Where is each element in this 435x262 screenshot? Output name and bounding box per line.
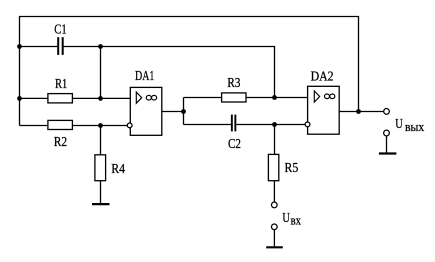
input ground terminal: [271, 224, 277, 230]
wire top feedback from node A to DA2 output node: [20, 17, 359, 126]
svg-text:R5: R5: [285, 161, 299, 176]
resistor R1: [48, 94, 73, 103]
svg-text:вх: вх: [291, 213, 302, 228]
wire DA1 output branch vertical: [183, 98, 185, 125]
wire C2 node down to R5: [274, 125, 276, 155]
resistor R5: [268, 154, 278, 180]
wire input ground terminal to ground: [273, 230, 275, 247]
wire output ground terminal to ground: [386, 136, 388, 153]
wire C2 row right segment to DA2 inverting input: [236, 124, 305, 126]
wire R1 row to DA1 noninverting input: [20, 97, 131, 99]
label U output: [395, 117, 425, 134]
op-amp DA1 amplifier triangle mark: [136, 92, 141, 103]
op-amp DA1 inverting input circle: [127, 123, 132, 128]
junction node R3 right: [272, 95, 277, 100]
wire R5 to input terminal: [273, 181, 275, 202]
wire C1 row right segment to DA2 input column: [64, 47, 275, 98]
output terminal: [384, 109, 390, 115]
wire R3 row to DA2 noninverting input: [184, 97, 308, 99]
svg-text:R1: R1: [55, 77, 67, 92]
junction node R1 left: [17, 96, 22, 101]
capacitor C1: [57, 37, 64, 55]
ground below input terminal: [266, 246, 283, 248]
output ground terminal: [384, 130, 390, 136]
svg-text:U: U: [395, 117, 403, 132]
wire R2 node down to R4: [100, 126, 102, 156]
svg-text:R4: R4: [111, 162, 125, 177]
op-amp DA1 body: [130, 87, 162, 135]
resistor R4: [95, 155, 106, 181]
resistor R2: [48, 120, 73, 129]
svg-text:DA2: DA2: [311, 70, 334, 85]
svg-text:U: U: [282, 211, 290, 226]
op-amp DA2 infinity gain mark: [324, 94, 334, 99]
junction node A at C1 left: [17, 44, 22, 49]
wire DA1 output: [162, 111, 184, 113]
wire C2 row left segment: [184, 124, 232, 126]
wire R4 to ground: [100, 181, 102, 204]
ground below output terminal: [379, 152, 397, 154]
svg-text:R2: R2: [54, 135, 67, 150]
op-amp DA2 body: [308, 86, 340, 134]
svg-text:C1: C1: [54, 23, 66, 38]
svg-text:DA1: DA1: [135, 69, 154, 84]
capacitor C2: [231, 115, 236, 132]
wire C1 row left segment: [20, 46, 58, 48]
op-amp DA2 amplifier triangle mark: [314, 91, 319, 102]
resistor R3: [222, 93, 246, 102]
svg-text:R3: R3: [227, 76, 240, 91]
junction node C1 right: [98, 44, 103, 49]
ground below R4: [92, 203, 110, 205]
junction node R1 right: [98, 96, 103, 101]
svg-text:вых: вых: [405, 119, 425, 134]
op-amp DA1 infinity gain mark: [146, 95, 156, 100]
junction node C2 right: [272, 122, 277, 127]
input terminal: [271, 202, 277, 208]
svg-text:C2: C2: [228, 137, 241, 152]
junction node R2 right: [98, 123, 103, 128]
wire R2 row to DA1 inverting input: [20, 125, 128, 127]
op-amp DA2 inverting input circle: [305, 122, 310, 127]
wire DA2 output to output terminal: [339, 111, 384, 113]
junction node DA1 output: [181, 109, 186, 114]
junction node DA2 output: [356, 109, 361, 114]
label U input: [282, 211, 301, 228]
wire C1 node down to R1 node: [100, 47, 102, 99]
